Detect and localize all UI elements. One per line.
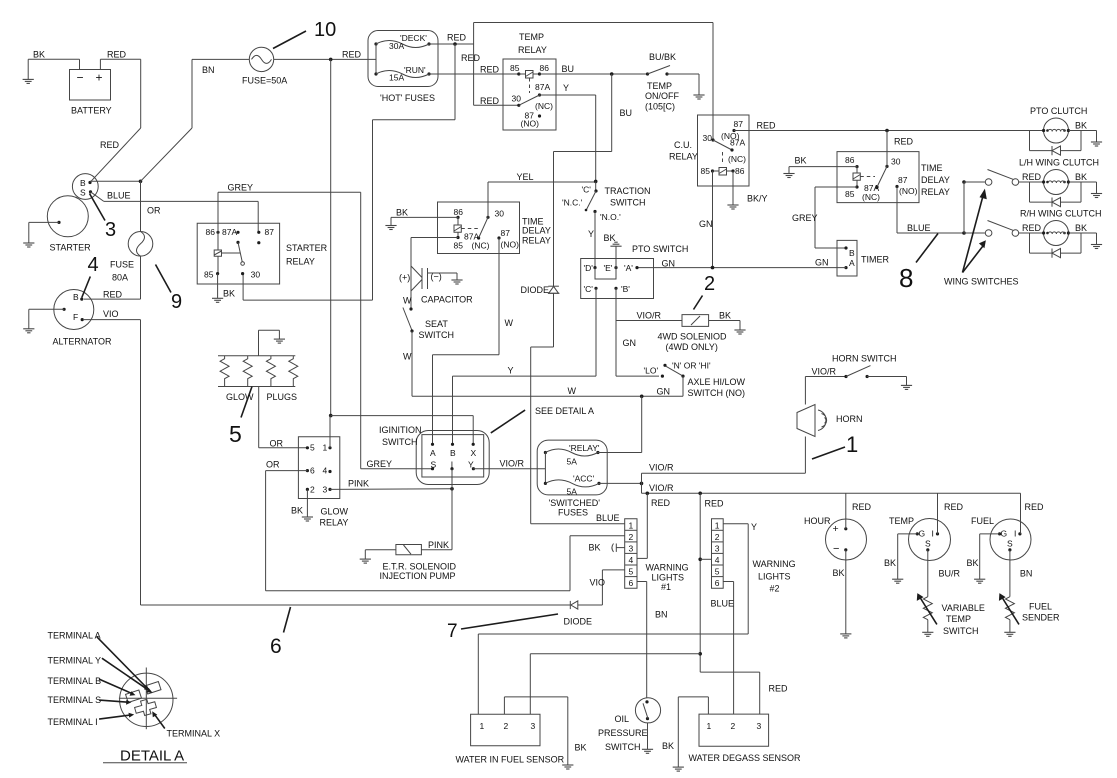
svg-text:Y: Y (751, 522, 757, 532)
svg-text:30: 30 (703, 133, 713, 143)
K5 86 ground BK (385, 208, 458, 230)
svg-text:2: 2 (704, 273, 715, 295)
svg-text:GLOW: GLOW (321, 507, 349, 517)
wire RED down to glow relay 1 (330, 59, 332, 415)
wire RED rail end to fuel I (1021, 493, 1045, 534)
svg-text:86: 86 (206, 227, 216, 237)
callout 9 (156, 265, 183, 314)
svg-text:RED: RED (1025, 502, 1045, 512)
wire RED run output to temp relay 85 (429, 73, 519, 75)
svg-text:'C': 'C' (582, 185, 592, 195)
svg-text:30: 30 (251, 270, 261, 280)
svg-text:GN: GN (662, 259, 676, 269)
detail A leader arrows (97, 637, 165, 729)
svg-text:1: 1 (846, 432, 858, 457)
L/H clutch ground BK (1068, 172, 1102, 198)
svg-text:RED: RED (944, 502, 964, 512)
svg-text:87: 87 (734, 119, 744, 129)
svg-text:BK: BK (1075, 223, 1087, 233)
svg-text:BN: BN (655, 610, 668, 620)
svg-text:(NO): (NO) (899, 186, 918, 196)
svg-text:'LO': 'LO' (644, 366, 659, 376)
svg-text:DELAY: DELAY (921, 175, 950, 185)
hour minus ground BK (833, 550, 852, 638)
wing switch feed node (962, 180, 966, 235)
svg-text:(105[C): (105[C) (645, 102, 675, 112)
svg-text:LIGHTS: LIGHTS (758, 572, 791, 582)
svg-text:87: 87 (265, 227, 275, 237)
svg-text:3: 3 (757, 721, 762, 731)
svg-text:ON/OFF: ON/OFF (645, 91, 679, 101)
fuse ACC 5A (544, 453, 601, 497)
svg-text:3: 3 (531, 721, 536, 731)
svg-text:SEE DETAIL A: SEE DETAIL A (535, 406, 594, 416)
switch OIL PRESSURE (598, 698, 661, 752)
svg-text:ALTERNATOR: ALTERNATOR (53, 337, 113, 347)
svg-text:W: W (403, 352, 412, 362)
PTO clutch coil (1030, 106, 1087, 143)
svg-text:30: 30 (512, 94, 522, 104)
svg-text:FUSE: FUSE (110, 260, 134, 270)
svg-text:30: 30 (891, 157, 901, 167)
svg-text:I: I (1014, 529, 1016, 539)
svg-text:RELAY: RELAY (518, 45, 547, 55)
svg-text:HORN SWITCH: HORN SWITCH (832, 354, 897, 364)
svg-text:BN: BN (1020, 569, 1033, 579)
svg-text:'C': 'C' (584, 284, 594, 294)
svg-text:TERMINAL A: TERMINAL A (48, 631, 101, 641)
wire BN WL1 pin6 to oil pressure switch (637, 582, 668, 698)
svg-text:85: 85 (204, 270, 214, 280)
svg-text:BK: BK (967, 558, 979, 568)
svg-text:BK: BK (795, 156, 807, 166)
diode D1 temp warning (521, 152, 560, 348)
hot fuses box (368, 31, 438, 104)
svg-text:5: 5 (310, 443, 315, 453)
svg-text:PRESSURE: PRESSURE (598, 728, 648, 738)
svg-text:RED: RED (107, 50, 127, 60)
switch TEMP ON/OFF (645, 52, 705, 112)
svg-text:PINK: PINK (428, 540, 449, 550)
variable temp switch (917, 550, 985, 636)
svg-text:TERMINAL X: TERMINAL X (167, 729, 221, 739)
svg-text:BK: BK (662, 741, 674, 751)
svg-text:(NO): (NO) (501, 240, 520, 250)
svg-text:FUEL: FUEL (1029, 602, 1052, 612)
wire RED rail to WL1 pin4 (637, 493, 671, 558)
svg-text:RED: RED (705, 499, 725, 509)
svg-text:C.U.: C.U. (674, 140, 692, 150)
svg-text:GN: GN (623, 338, 637, 348)
horn (797, 377, 863, 474)
WL1 pin3 BK capacitor tap (589, 543, 625, 553)
svg-text:BK: BK (1075, 172, 1087, 182)
svg-text:WARNING: WARNING (753, 559, 796, 569)
water in fuel pin2 ground BK (504, 697, 586, 769)
svg-text:WATER DEGASS SENSOR: WATER DEGASS SENSOR (689, 753, 802, 763)
svg-text:(NC): (NC) (728, 154, 746, 164)
svg-text:30: 30 (495, 209, 505, 219)
wire Y temp relay 87A to traction (540, 83, 596, 181)
svg-text:BK: BK (291, 506, 303, 516)
wire VIO diode7 to WL1 pin5 (590, 570, 625, 605)
svg-text:(4WD ONLY): (4WD ONLY) (666, 342, 718, 352)
svg-text:RELAY: RELAY (522, 236, 551, 246)
svg-text:RED: RED (461, 53, 481, 63)
wire Y PTO C to ignition B (453, 288, 597, 444)
svg-text:5: 5 (229, 421, 242, 447)
svg-text:4: 4 (715, 555, 720, 565)
svg-text:8: 8 (899, 263, 913, 293)
gauge TEMP (889, 516, 951, 561)
oil pressure switch ground BK (642, 723, 653, 753)
svg-text:3: 3 (323, 485, 328, 495)
wire Y traction NO to PTO D (588, 212, 595, 268)
svg-text:RED: RED (103, 290, 123, 300)
svg-text:L/H WING CLUTCH: L/H WING CLUTCH (1019, 158, 1099, 168)
svg-text:RELAY: RELAY (286, 257, 315, 267)
svg-text:GN: GN (815, 258, 829, 268)
wire W seat switch to GN node (412, 331, 683, 398)
alternator (53, 290, 113, 347)
wire BLUE WL2 pin6 to degass 2 (711, 582, 735, 715)
svg-text:#1: #1 (661, 582, 671, 592)
svg-text:VIO: VIO (103, 309, 119, 319)
fuel sender (999, 550, 1060, 636)
relay K4 TIME DELAY RELAY right (837, 152, 950, 203)
svg-text:B: B (80, 178, 86, 188)
wire VIO/R ignition Y to switched fuses (473, 459, 545, 469)
wire VIO/R to horn (642, 472, 806, 474)
callout 10 (273, 19, 336, 49)
connector WARNING LIGHTS #2 (712, 519, 796, 594)
svg-text:85: 85 (845, 189, 855, 199)
svg-text:9: 9 (171, 291, 182, 313)
switch AXLE HI/LOW (644, 361, 746, 399)
svg-text:SENDER: SENDER (1022, 613, 1060, 623)
svg-text:1: 1 (480, 721, 485, 731)
starter motor (47, 196, 91, 253)
svg-text:BU/BK: BU/BK (649, 52, 676, 62)
svg-text:'A': 'A' (624, 263, 633, 273)
svg-text:VIO/R: VIO/R (500, 459, 525, 469)
svg-text:BLUE: BLUE (107, 191, 131, 201)
svg-text:R/H WING CLUTCH: R/H WING CLUTCH (1020, 209, 1102, 219)
svg-text:1: 1 (707, 721, 712, 731)
svg-text:FUSE=50A: FUSE=50A (242, 76, 287, 86)
svg-text:RED: RED (447, 33, 467, 43)
svg-text:GN: GN (699, 219, 713, 229)
wire VIO/R RED rail to gauges (642, 492, 1021, 496)
svg-text:TERMINAL I: TERMINAL I (48, 717, 98, 727)
svg-text:BK: BK (833, 568, 845, 578)
PTO E ground BK (604, 233, 622, 268)
wire Y WL2 pin1 to water in fuel 1 (478, 522, 757, 714)
svg-text:VIO/R: VIO/R (637, 311, 662, 321)
fuse RELAY 5A (544, 443, 600, 467)
4WD solenoid (658, 315, 728, 352)
wire RED rail to K4 30 (886, 131, 888, 167)
wire OR glow plugs to glow relay 5 (259, 387, 308, 449)
svg-text:7: 7 (447, 621, 458, 642)
switch TRACTION SWITCH (562, 180, 651, 222)
wire BU down to diode (554, 74, 633, 152)
wire GN CU relay 85 down (699, 171, 713, 268)
svg-text:OR: OR (147, 206, 161, 216)
wire GREY starter relay 86 to ignition S (218, 183, 433, 470)
wire RED deck output to top rail (429, 23, 713, 141)
wire BLUE diode to warning light 1 pin1 (531, 347, 625, 524)
svg-text:BLUE: BLUE (711, 599, 735, 609)
wire RED node to degass pin3 (700, 672, 788, 714)
fuel G ground BK (967, 534, 1000, 583)
wire GN pto A to timer A (637, 258, 846, 270)
wire GREY K4 85 to timer B (792, 187, 857, 248)
svg-text:TEMP: TEMP (946, 614, 971, 624)
svg-text:PTO SWITCH: PTO SWITCH (632, 244, 688, 254)
switched fuses box (537, 440, 607, 517)
wire GN PTO B to axle LO (616, 321, 659, 377)
svg-text:OR: OR (266, 460, 280, 470)
callout 4 (82, 254, 99, 298)
svg-text:1: 1 (715, 521, 720, 531)
switch wing upper (964, 170, 1044, 186)
svg-text:15A: 15A (389, 73, 404, 83)
svg-text:87: 87 (898, 175, 908, 185)
K4 86 ground BK (783, 156, 857, 178)
detail A circle (119, 668, 177, 730)
svg-text:2: 2 (629, 532, 634, 542)
svg-text:WING SWITCHES: WING SWITCHES (944, 277, 1019, 287)
svg-text:'RUN': 'RUN' (404, 65, 426, 75)
ignition switch (379, 425, 489, 485)
svg-text:87A: 87A (730, 138, 745, 148)
wire YEL K5 30 to traction C (488, 172, 596, 217)
switch HORN SWITCH (805, 354, 906, 379)
svg-text:'RELAY': 'RELAY' (569, 443, 600, 453)
detail A terminal labels (48, 631, 221, 765)
svg-text:RED: RED (1022, 172, 1042, 182)
callout 6 (270, 607, 291, 658)
glow plugs (218, 356, 298, 402)
svg-text:S: S (925, 539, 931, 549)
wire PINK node to ETR solenoid (421, 489, 452, 550)
L/H wing clutch coil (1019, 158, 1099, 195)
svg-text:3: 3 (715, 544, 720, 554)
svg-text:RED: RED (480, 96, 500, 106)
svg-text:85: 85 (510, 63, 520, 73)
svg-text:87A: 87A (535, 82, 550, 92)
svg-text:86: 86 (454, 207, 464, 217)
see detail A note (491, 406, 594, 433)
svg-text:A: A (430, 448, 436, 458)
battery ground (23, 59, 34, 83)
svg-text:(NO): (NO) (521, 119, 540, 129)
svg-text:G: G (919, 529, 926, 539)
svg-text:TIMER: TIMER (861, 255, 889, 265)
svg-text:3: 3 (105, 219, 116, 241)
wire RED deck branch to starter relay 30 (243, 44, 480, 300)
svg-text:RED: RED (100, 140, 120, 150)
wire BU temp relay 86 to temp on/off (540, 64, 648, 76)
svg-text:S: S (80, 188, 86, 198)
svg-text:'HOT' FUSES: 'HOT' FUSES (380, 93, 435, 103)
svg-text:TEMP: TEMP (889, 516, 914, 526)
callout 8 (899, 234, 938, 294)
svg-text:4: 4 (629, 555, 634, 565)
svg-text:PLUGS: PLUGS (267, 392, 298, 402)
svg-text:86: 86 (540, 63, 550, 73)
wire BN from fuse 50A (141, 59, 250, 181)
wire RED battery positive (91, 50, 141, 182)
svg-text:S: S (1007, 539, 1013, 549)
svg-text:GREY: GREY (228, 183, 254, 193)
svg-text:'D': 'D' (584, 263, 594, 273)
svg-text:B: B (450, 448, 456, 458)
svg-text:87A: 87A (222, 227, 237, 237)
svg-text:4: 4 (323, 466, 328, 476)
svg-text:BATTERY: BATTERY (71, 106, 112, 116)
svg-text:BK: BK (589, 543, 601, 553)
svg-text:DIODE: DIODE (521, 285, 550, 295)
svg-text:'N.O.': 'N.O.' (600, 212, 621, 222)
wire RED CU 87 to PTO clutch (734, 121, 1044, 147)
svg-text:85: 85 (701, 166, 711, 176)
starter ground (23, 222, 59, 247)
callout 7 (447, 614, 558, 642)
temp G ground BK (884, 534, 917, 583)
starter relay 85 ground BK (212, 274, 235, 303)
svg-text:5: 5 (629, 567, 634, 577)
svg-text:W: W (403, 296, 412, 306)
wire W K5 87 to ignition A (433, 238, 514, 444)
svg-text:RED: RED (852, 502, 872, 512)
svg-text:5A: 5A (567, 487, 578, 497)
svg-text:SWITCH: SWITCH (382, 437, 418, 447)
battery (70, 70, 112, 116)
water degass pin1 ground BK (662, 697, 708, 771)
svg-text:(NC): (NC) (862, 192, 880, 202)
svg-text:HOUR: HOUR (804, 516, 831, 526)
svg-text:AXLE HI/LOW: AXLE HI/LOW (688, 377, 746, 387)
svg-text:RED: RED (1022, 223, 1042, 233)
sensor WATER IN FUEL (456, 714, 565, 764)
diode across L/H clutch (1030, 182, 1082, 207)
wire W K5 85 to capacitor/seat (403, 238, 458, 310)
svg-text:TERMINAL S: TERMINAL S (48, 695, 102, 705)
4WD solenoid ground BK (709, 311, 746, 335)
svg-text:(+): (+) (399, 273, 410, 283)
svg-text:6: 6 (715, 578, 720, 588)
wire relay fuse output up to GN node (598, 396, 642, 452)
ETR ground (360, 550, 396, 563)
fuse RUN 15A (374, 44, 430, 83)
svg-text:BLUE: BLUE (907, 223, 931, 233)
svg-text:OR: OR (270, 439, 284, 449)
svg-text:X: X (471, 448, 477, 458)
svg-text:INJECTION PUMP: INJECTION PUMP (380, 571, 456, 581)
svg-text:B: B (73, 292, 79, 302)
svg-text:RELAY: RELAY (669, 152, 698, 162)
svg-text:CAPACITOR: CAPACITOR (421, 295, 473, 305)
svg-text:FUSES: FUSES (558, 508, 588, 518)
svg-text:4: 4 (88, 254, 99, 276)
svg-text:DELAY: DELAY (522, 226, 551, 236)
svg-text:SWITCH: SWITCH (943, 626, 979, 636)
svg-text:4WD SOLENIOD: 4WD SOLENIOD (658, 332, 728, 342)
svg-text:3: 3 (629, 544, 634, 554)
PTO clutch ground BK (1068, 121, 1102, 147)
wire BLUE K4 87 to wing switches (897, 187, 964, 234)
wire RED rail down WL2 pin4 (698, 493, 724, 672)
svg-text:'B': 'B' (621, 284, 630, 294)
svg-text:BK: BK (884, 558, 896, 568)
timer (837, 240, 889, 276)
svg-text:−: − (77, 71, 84, 85)
svg-text:G: G (1001, 529, 1008, 539)
svg-text:TIME: TIME (921, 163, 943, 173)
svg-text:2: 2 (504, 721, 509, 731)
svg-text:WARNING: WARNING (646, 563, 689, 573)
svg-text:80A: 80A (112, 273, 128, 283)
svg-text:2: 2 (310, 485, 315, 495)
svg-text:1: 1 (629, 521, 634, 531)
wire PINK glow relay 3 to ignition I (330, 479, 454, 491)
svg-text:BU/R: BU/R (939, 569, 961, 579)
switch SEAT SWITCH (403, 307, 454, 361)
svg-text:TERMINAL B: TERMINAL B (48, 676, 102, 686)
callout 3 (90, 194, 117, 242)
wire VIO alternator F to diode 7 (84, 309, 570, 605)
svg-text:E.T.R. SOLENOID: E.T.R. SOLENOID (383, 562, 457, 572)
svg-text:BK: BK (719, 311, 731, 321)
wire RED fuse50A to hot fuses (274, 50, 376, 62)
svg-text:−: − (833, 543, 839, 555)
svg-text:87: 87 (501, 228, 511, 238)
svg-text:5: 5 (715, 567, 720, 577)
svg-text:BN: BN (202, 65, 215, 75)
glow plugs ground (259, 330, 286, 356)
svg-text:BK: BK (223, 289, 235, 299)
svg-text:'N.C.': 'N.C.' (562, 198, 583, 208)
svg-text:VIO/R: VIO/R (812, 367, 837, 377)
wire BK battery negative (28, 50, 79, 70)
svg-text:BLUE: BLUE (596, 513, 620, 523)
svg-text:B: B (849, 248, 855, 258)
switch wing lower (964, 221, 1044, 237)
wire ignition I to node (451, 469, 453, 489)
svg-text:WATER IN FUEL SENSOR: WATER IN FUEL SENSOR (456, 755, 565, 765)
svg-text:VARIABLE: VARIABLE (942, 603, 985, 613)
svg-text:HORN: HORN (836, 414, 863, 424)
wire OR glow relay 6 to warning light pin2 (266, 460, 625, 591)
svg-text:A: A (849, 258, 855, 268)
svg-text:BK: BK (33, 50, 45, 60)
glow relay 2 ground BK (291, 489, 313, 521)
svg-text:6: 6 (629, 578, 634, 588)
svg-text:BK: BK (604, 233, 616, 243)
svg-text:GREY: GREY (792, 213, 818, 223)
svg-text:Y: Y (563, 83, 569, 93)
R/H clutch ground BK (1068, 223, 1102, 249)
svg-text:RED: RED (480, 65, 500, 75)
svg-text:SWITCH: SWITCH (419, 330, 455, 340)
diode D7 (564, 601, 603, 627)
svg-text:TEMP: TEMP (519, 32, 544, 42)
svg-text:6: 6 (270, 635, 282, 658)
svg-text:30A: 30A (389, 41, 404, 51)
wire node B junction (90, 180, 142, 184)
